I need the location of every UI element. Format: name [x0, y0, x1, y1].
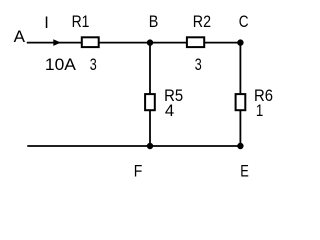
- junction dot node E: [237, 143, 243, 149]
- svg-text:R1: R1: [72, 13, 90, 31]
- wire vertical node B to node F: [149, 43, 151, 146]
- resistor R6: [236, 94, 246, 110]
- svg-text:1: 1: [256, 102, 263, 120]
- svg-text:3: 3: [195, 56, 202, 74]
- wire top horizontal from A to node C: [27, 42, 241, 44]
- resistor R2: [187, 37, 204, 47]
- svg-text:R2: R2: [193, 13, 211, 31]
- svg-text:C: C: [239, 13, 249, 31]
- wire vertical node C to node E: [239, 43, 241, 146]
- junction dot node F: [147, 143, 153, 149]
- svg-text:10A: 10A: [45, 56, 76, 74]
- svg-text:I: I: [44, 14, 49, 32]
- svg-text:4: 4: [165, 102, 174, 120]
- svg-text:F: F: [134, 162, 143, 180]
- svg-text:3: 3: [90, 56, 97, 74]
- resistor R1: [82, 37, 99, 47]
- wire bottom horizontal from left to node E: [27, 145, 240, 147]
- resistor R5: [145, 94, 155, 110]
- current arrow I: [53, 39, 61, 46]
- junction dot node C: [237, 39, 243, 45]
- svg-text:A: A: [14, 28, 25, 46]
- junction dot node B: [147, 39, 153, 45]
- svg-text:B: B: [149, 13, 159, 31]
- svg-text:E: E: [240, 162, 249, 180]
